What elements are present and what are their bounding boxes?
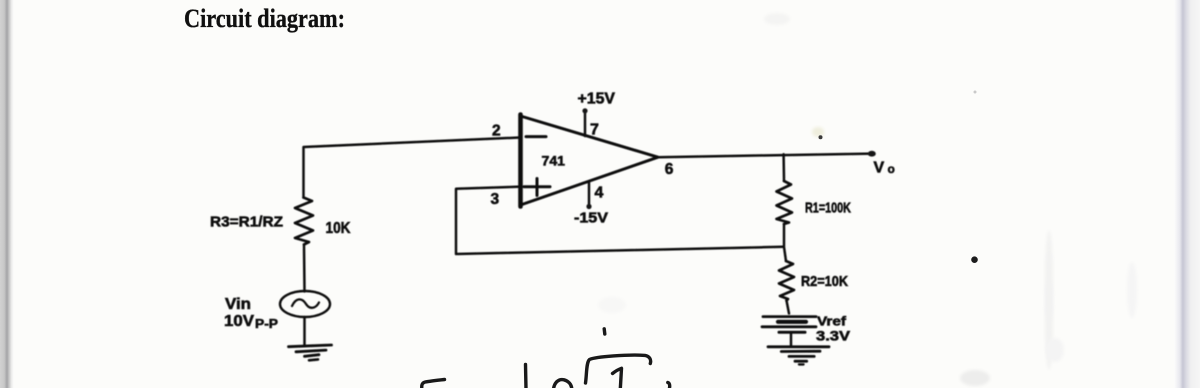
svg-text:3.3V: 3.3V xyxy=(816,328,851,344)
svg-text:Circuit diagram:: Circuit diagram: xyxy=(184,4,345,33)
svg-text:10V: 10V xyxy=(224,313,254,330)
svg-text:3: 3 xyxy=(491,191,500,208)
svg-text:Vref: Vref xyxy=(817,314,847,329)
svg-text:741: 741 xyxy=(542,153,566,169)
svg-text:+15V: +15V xyxy=(578,91,616,108)
svg-text:7: 7 xyxy=(590,122,599,139)
svg-text:2: 2 xyxy=(492,123,501,140)
svg-text:Vin: Vin xyxy=(225,296,251,313)
svg-text:10K: 10K xyxy=(326,220,351,237)
svg-text:P-P: P-P xyxy=(255,316,278,331)
svg-text:o: o xyxy=(888,162,895,176)
svg-text:4: 4 xyxy=(595,185,604,202)
svg-text:R3=R1/RZ: R3=R1/RZ xyxy=(210,214,283,231)
svg-text:6: 6 xyxy=(665,161,674,178)
svg-text:V: V xyxy=(874,160,885,177)
svg-text:-15V: -15V xyxy=(574,210,608,227)
svg-text:R2=10K: R2=10K xyxy=(801,274,848,290)
svg-text:R1=100K: R1=100K xyxy=(805,200,851,217)
